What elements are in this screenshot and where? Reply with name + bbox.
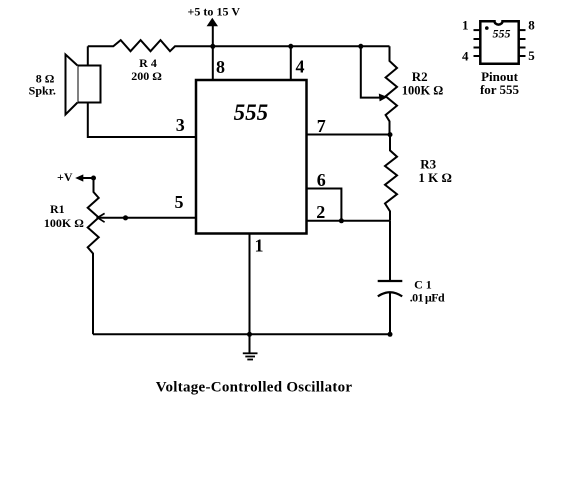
wire +V arrow <box>75 174 93 181</box>
svg-text:555: 555 <box>234 100 269 125</box>
resistor R3 <box>385 135 397 221</box>
wire speaker bottom to pin3 <box>88 103 196 138</box>
svg-text:Spkr.: Spkr. <box>29 84 56 98</box>
svg-text:5: 5 <box>528 48 535 63</box>
node R1 top junction <box>91 176 96 181</box>
capacitor C1 <box>378 281 403 334</box>
svg-text:3: 3 <box>176 115 185 135</box>
potentiometer R2 <box>386 46 397 134</box>
pin 5 label <box>175 192 184 212</box>
label +V <box>57 170 73 184</box>
wire top rail <box>88 40 390 51</box>
title <box>156 379 353 395</box>
speaker SPKR <box>66 55 101 115</box>
wire R2 wiper <box>361 46 388 101</box>
label R2 100K <box>402 69 444 98</box>
svg-text:.01 µFd: .01 µFd <box>410 291 445 305</box>
wire pin 7 <box>307 134 390 136</box>
pin 8 label <box>216 57 225 77</box>
label C1 value <box>410 278 445 305</box>
wire R1 wiper <box>98 213 105 222</box>
svg-text:8: 8 <box>528 17 535 32</box>
wire speaker top <box>87 46 89 65</box>
svg-text:1: 1 <box>462 18 469 33</box>
svg-text:200 Ω: 200 Ω <box>131 69 162 83</box>
svg-text:4: 4 <box>296 57 305 77</box>
svg-text:for 555: for 555 <box>480 82 520 97</box>
ground <box>243 334 258 359</box>
op-amp U1 555 body <box>196 80 307 234</box>
pin 7 label <box>317 116 326 136</box>
svg-text:100K Ω: 100K Ω <box>402 84 444 98</box>
svg-text:4: 4 <box>462 48 469 63</box>
pinout right pins <box>519 30 526 56</box>
svg-text:8: 8 <box>216 57 225 77</box>
svg-text:100K Ω: 100K Ω <box>44 216 84 230</box>
svg-text:7: 7 <box>317 116 326 136</box>
node pin7 junction <box>388 132 393 137</box>
svg-text:Voltage-Controlled Oscillator: Voltage-Controlled Oscillator <box>156 379 353 395</box>
pin 3 label <box>176 115 185 135</box>
node C1 bottom junction <box>388 332 393 337</box>
IC pinout diagram body <box>480 21 518 64</box>
node pin2 junction <box>339 218 344 223</box>
svg-text:5: 5 <box>175 192 184 212</box>
label +5 to 15 V <box>188 5 241 19</box>
wire pin 4 <box>290 46 292 80</box>
node R1 wiper junction <box>123 215 128 220</box>
label R3 1K <box>418 157 452 185</box>
supply arrow <box>207 18 218 47</box>
node pin4 junction <box>288 44 293 49</box>
svg-text:C 1: C 1 <box>414 278 432 292</box>
wire pin 2 <box>307 220 390 222</box>
pinout label 1 <box>462 18 469 33</box>
svg-text:R1: R1 <box>50 202 65 216</box>
node ground junction <box>247 332 252 337</box>
label 8 ohm Spkr <box>29 72 56 98</box>
svg-text:555: 555 <box>493 27 511 41</box>
svg-text:R2: R2 <box>412 69 428 84</box>
wire pin 1 <box>249 234 251 335</box>
svg-text:1: 1 <box>255 236 264 256</box>
svg-text:1 K Ω: 1 K Ω <box>418 170 452 185</box>
pin 2 label <box>316 202 325 222</box>
label R1 100K <box>44 202 84 230</box>
pinout caption <box>480 69 520 97</box>
pin 6 label <box>317 170 326 190</box>
wire R3 to C1 <box>389 221 391 280</box>
pinout label 8 <box>528 17 535 32</box>
pin 1 label <box>255 236 264 256</box>
svg-text:2: 2 <box>316 202 325 222</box>
pinout label 5 <box>528 48 535 63</box>
wire pin 6 <box>307 189 342 221</box>
svg-text:+V: +V <box>57 170 73 184</box>
svg-text:+5 to 15 V: +5 to 15 V <box>188 5 241 19</box>
resistor R4 label <box>131 56 162 83</box>
svg-text:6: 6 <box>317 170 326 190</box>
pinout label 4 <box>462 48 469 63</box>
svg-text:R 4: R 4 <box>139 56 157 70</box>
wire pin 5 <box>99 217 197 219</box>
potentiometer R1 <box>88 178 99 334</box>
node supply junction <box>210 44 215 49</box>
node R2 wiper junction <box>358 44 363 49</box>
wire bottom rail <box>93 333 390 335</box>
pin 4 label <box>296 57 305 77</box>
pinout left pins <box>474 30 481 56</box>
wire pin 8 <box>212 46 214 80</box>
